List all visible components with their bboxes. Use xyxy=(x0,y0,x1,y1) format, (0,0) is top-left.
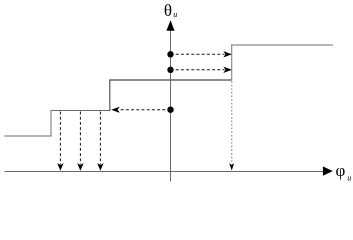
dashed arrow from dot C left to step corner xyxy=(111,107,170,113)
svg-text:φ: φ xyxy=(336,161,346,180)
dashed down arrow 2 from step to x-axis xyxy=(77,112,83,171)
staircase riser between step 2 and 3 xyxy=(109,80,111,112)
y-axis label theta_u xyxy=(164,1,177,20)
dashed arrow from dot A right to step edge xyxy=(171,51,232,57)
svg-text:u: u xyxy=(347,173,351,182)
staircase step 3 (third level) xyxy=(109,79,232,81)
y-axis theta_u xyxy=(166,20,174,181)
staircase step 1 (lowest level) xyxy=(5,111,52,137)
svg-text:θ: θ xyxy=(164,1,172,20)
staircase step 2 (second level) xyxy=(51,110,110,112)
dashed down arrow 3 from step to x-axis xyxy=(97,112,103,171)
gray dotted drop line from step jump to x-axis xyxy=(229,81,234,171)
dashed down arrow 1 from step to x-axis xyxy=(57,112,63,171)
dashed arrow from dot B right to step edge xyxy=(171,67,232,73)
staircase jump riser at step edge xyxy=(231,45,233,81)
staircase step 4 (top level) xyxy=(231,44,333,46)
node dot A on y-axis xyxy=(167,51,173,57)
svg-text:u: u xyxy=(173,10,177,19)
node dot C on y-axis xyxy=(167,107,173,113)
node dot B on y-axis xyxy=(167,67,173,73)
x-axis phi_u xyxy=(5,166,333,175)
x-axis label phi_u xyxy=(336,161,352,182)
